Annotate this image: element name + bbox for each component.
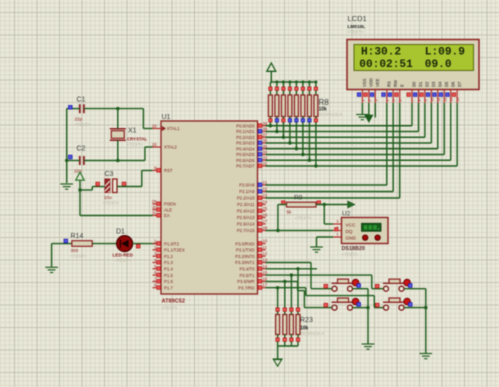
- wire P2 to LCD RS: [266, 103, 387, 185]
- node D1 right state square: [136, 244, 140, 248]
- U1 pin 34 (P0.5/AD5): [236, 150, 268, 158]
- crystal X1: [110, 128, 148, 148]
- ground for LCD VSS: [356, 114, 369, 116]
- wire P0.1 to LCD D1: [266, 103, 419, 132]
- push button B2: [383, 279, 412, 291]
- LCD pin 4 (RS): [382, 81, 392, 103]
- U1 pin 29 (PSEN): [152, 199, 176, 207]
- U1 pin 33 (P0.6/AD6): [236, 155, 268, 163]
- wire P2 to LCD E: [266, 103, 400, 198]
- svg-text:<TEXT>: <TEXT>: [127, 142, 143, 147]
- svg-text:CRYSTAL: CRYSTAL: [127, 137, 148, 142]
- U1 pin 22 (P2.1/A9): [239, 187, 268, 195]
- resistor pack R8 element 7: [307, 81, 311, 161]
- svg-text:D5: D5: [444, 81, 449, 87]
- svg-text:P1.3: P1.3: [164, 260, 173, 265]
- wire DQ net P2.7 to U2 DQ: [266, 230, 334, 232]
- svg-text:RS: RS: [386, 81, 391, 87]
- svg-text:<TEXT>: <TEXT>: [162, 306, 178, 311]
- svg-text:XTAL2: XTAL2: [164, 145, 177, 150]
- svg-text:7: 7: [411, 100, 415, 102]
- U1 pin 25 (P2.4/A12): [237, 206, 268, 214]
- ground for C1/C2: [60, 184, 73, 189]
- svg-text:P0.0/AD0: P0.0/AD0: [236, 123, 255, 128]
- wire LCD VEE down: [374, 103, 376, 118]
- svg-text:P3.3/INT1: P3.3/INT1: [235, 260, 255, 265]
- node B3 feed state square: [324, 303, 328, 307]
- svg-text:VCC: VCC: [346, 222, 357, 227]
- node VCC branch junction: [78, 188, 81, 191]
- U1 pin 7 (P1.6): [153, 276, 174, 284]
- svg-text:ALE: ALE: [164, 207, 172, 212]
- svg-text:5: 5: [392, 100, 396, 102]
- U1 pin 30 (ALE): [152, 205, 172, 213]
- node R9 left state square: [281, 201, 285, 205]
- U1 pin 32 (P0.7/AD7): [236, 161, 268, 169]
- svg-text:EA: EA: [164, 213, 170, 218]
- svg-text:P2.3/A11: P2.3/A11: [237, 202, 255, 207]
- resistor pack R8 element 3: [281, 81, 285, 138]
- svg-text:35: 35: [263, 144, 268, 149]
- svg-text:PSEN: PSEN: [164, 202, 176, 207]
- svg-text:X1: X1: [128, 128, 137, 135]
- wire B1/B3 to ground: [353, 289, 368, 344]
- U1 pin 6 (P1.5): [153, 270, 174, 278]
- svg-text:14: 14: [456, 98, 460, 102]
- U2 pin 3 (VCC): [333, 219, 342, 224]
- svg-text:P2.2/A10: P2.2/A10: [237, 196, 255, 201]
- svg-text:12: 12: [443, 98, 447, 102]
- LCD pin 8 (D1): [413, 81, 423, 103]
- wire P0.2 to LCD D2: [266, 103, 425, 137]
- svg-text:34: 34: [263, 150, 268, 155]
- U1 pin 15 (P3.5/T1): [239, 270, 267, 278]
- svg-text:30: 30: [152, 205, 157, 210]
- U1 pin 16 (P3.6/WR): [237, 276, 268, 284]
- U1 pin 24 (P2.3/A11): [237, 200, 268, 208]
- svg-text:26: 26: [263, 213, 268, 218]
- LED D1 LED-RED: [113, 228, 134, 263]
- label R8: [319, 98, 343, 117]
- U1 pin 35 (P0.4/AD4): [236, 144, 268, 152]
- svg-text:13: 13: [450, 98, 454, 102]
- microcontroller U1 AT89C52: [161, 114, 258, 311]
- svg-text:P3.7/RD: P3.7/RD: [238, 285, 254, 290]
- U1 pin 1 (P1.0/T2): [153, 239, 180, 247]
- node VCC junction at R9: [323, 203, 326, 206]
- LCD pin 1 (VSS): [357, 78, 367, 103]
- node B1 feed state square: [324, 284, 328, 288]
- svg-text:4: 4: [386, 100, 390, 102]
- wire C2 left to ground rail: [67, 160, 80, 162]
- node R23 junction 1: [276, 286, 279, 289]
- U1 pin 37 (P0.2/AD2): [236, 132, 268, 140]
- svg-text:P2.0/A8: P2.0/A8: [239, 183, 255, 188]
- resistor pack R8 element 5: [294, 81, 298, 149]
- LCD pin 2 (VDD): [364, 78, 374, 103]
- svg-text:09.0: 09.0: [425, 59, 452, 71]
- U1 pin 31 (EA): [152, 211, 170, 219]
- node B2-B4 junction: [424, 306, 427, 309]
- U1 pin 14 (P3.4/T0): [239, 264, 267, 272]
- resistor pack R23 element 4: [296, 269, 300, 346]
- node RP8 junction P0.7: [314, 164, 317, 167]
- svg-text:D1: D1: [116, 228, 125, 235]
- svg-text:P1.7: P1.7: [164, 285, 173, 290]
- svg-text:P1.4: P1.4: [164, 267, 173, 272]
- svg-text:.: .: [276, 368, 277, 373]
- svg-text:H:30.2: H:30.2: [361, 46, 401, 58]
- capacitor C2: [74, 146, 86, 174]
- LCD pin 13 (D6): [446, 81, 456, 103]
- svg-text:P3.2/INT0: P3.2/INT0: [235, 254, 255, 259]
- LCD text line 2: [359, 59, 452, 71]
- node RP8 junction P0.1: [275, 130, 278, 133]
- node RP8 junction P0.3: [288, 141, 291, 144]
- svg-text:<TEXT>: <TEXT>: [75, 122, 91, 127]
- wire VCC to C3 left: [80, 187, 105, 191]
- svg-text:22: 22: [263, 187, 268, 192]
- node C3 left state square: [96, 182, 100, 186]
- svg-text:P1.6: P1.6: [164, 279, 173, 284]
- resistor R14 300: [71, 233, 93, 259]
- U2 pin 2 (DQ): [333, 225, 342, 231]
- svg-text:P3.1/TXD: P3.1/TXD: [236, 248, 255, 253]
- svg-text:P0.1/AD1: P0.1/AD1: [236, 129, 255, 134]
- resistor pack R8 element 2: [275, 81, 279, 132]
- LCD pin 11 (D4): [433, 81, 443, 103]
- svg-text:LED-RED: LED-RED: [113, 253, 134, 258]
- svg-text:28: 28: [263, 226, 268, 231]
- LCD pin 14 (D7): [452, 81, 462, 103]
- node R23 junction 4: [296, 267, 299, 270]
- svg-text:P1.0/T2: P1.0/T2: [164, 241, 180, 246]
- svg-text:<TEXT>: <TEXT>: [295, 216, 311, 221]
- LCD text line 1: [361, 46, 465, 58]
- wire crystal bottom stub: [117, 140, 119, 160]
- svg-text:RESPACK-8: RESPACK-8: [319, 112, 343, 117]
- capacitor C1: [75, 97, 91, 128]
- U1 pin 27 (P2.6/A14): [237, 219, 268, 227]
- resistor pack R23 element 2: [283, 281, 287, 346]
- svg-text:12: 12: [263, 251, 268, 256]
- wire P3.3 to button B1: [266, 263, 332, 289]
- svg-text:RESPACK-4: RESPACK-4: [301, 331, 325, 336]
- U1 pin 9 (RST): [153, 166, 173, 174]
- node B1-B3 junction: [366, 306, 369, 309]
- power arrow VCC near C3: [76, 172, 85, 190]
- U1 pin 5 (P1.4): [153, 264, 174, 272]
- svg-text:U1: U1: [162, 114, 171, 121]
- node R23 junction 2: [283, 280, 286, 283]
- wire R9 right to VCC arrow: [316, 204, 348, 206]
- wire C1 right to XTAL1: [84, 109, 153, 129]
- svg-text:DQ: DQ: [346, 229, 353, 234]
- svg-text:22p: 22p: [75, 117, 83, 122]
- U1 pin 28 (P2.7/A15): [237, 226, 268, 234]
- svg-text:P1.2: P1.2: [164, 254, 173, 259]
- svg-text:23: 23: [263, 193, 268, 198]
- wire P3.6 to button B3: [266, 281, 332, 307]
- node R14 left state square: [64, 239, 68, 243]
- svg-text:P0.3/AD3: P0.3/AD3: [236, 141, 255, 146]
- resistor pack R8 element 4: [288, 81, 292, 144]
- wire P0.6 to LCD D6: [266, 103, 451, 160]
- U1 pin 4 (P1.3): [153, 258, 174, 266]
- svg-text:RW: RW: [393, 80, 398, 87]
- wire P0.7 to LCD D7: [266, 103, 458, 166]
- svg-text:300: 300: [71, 248, 79, 253]
- ground for B2/B4: [420, 353, 433, 355]
- LCD pin 5 (RW): [388, 80, 398, 103]
- node B4 feed state square: [375, 303, 379, 307]
- svg-text:P2.5/A13: P2.5/A13: [237, 215, 255, 220]
- node RP8 junction P0.5: [301, 153, 304, 156]
- svg-text:31: 31: [152, 211, 157, 216]
- wire crystal top stub: [117, 109, 119, 129]
- svg-text:VEE: VEE: [375, 78, 380, 87]
- svg-text:21: 21: [263, 180, 268, 185]
- U1 pin 19 (XTAL1): [152, 124, 180, 132]
- svg-text:32: 32: [263, 161, 268, 166]
- wire VCC down to U2 VCC: [324, 205, 333, 225]
- svg-text:24: 24: [263, 200, 268, 205]
- U1 pin 3 (P1.2): [153, 251, 174, 259]
- node R9 right state square: [317, 201, 321, 205]
- U1 pin 8 (P1.7): [153, 283, 174, 291]
- node B2 feed state square: [375, 284, 379, 288]
- svg-text:11: 11: [263, 245, 268, 250]
- node C1 left state square: [68, 105, 72, 109]
- svg-text:P2.1/A9: P2.1/A9: [239, 189, 255, 194]
- temperature sensor U2 DS18B20: [342, 211, 389, 258]
- wire ground to R14: [52, 243, 72, 245]
- node C3 right state square: [122, 182, 126, 186]
- power arrow down at LCD VDD: [365, 115, 373, 122]
- node C2 left state square: [68, 155, 72, 159]
- svg-text:9: 9: [424, 100, 428, 102]
- LCD pin 12 (D5): [439, 81, 449, 103]
- LCD pin 9 (D2): [420, 81, 430, 103]
- node crystal top junction: [116, 107, 119, 110]
- svg-text:<TEXT>: <TEXT>: [115, 258, 131, 263]
- power arrow VCC above RP8: [267, 63, 276, 82]
- svg-text:19: 19: [152, 124, 157, 129]
- wire U2 GND to ground: [317, 237, 334, 247]
- svg-text:C3: C3: [105, 171, 114, 178]
- wire C2 right to XTAL2: [84, 147, 153, 161]
- svg-text:P3.5/T1: P3.5/T1: [239, 273, 255, 278]
- svg-text:29: 29: [152, 199, 157, 204]
- U1 pin 12 (P3.2/INT0): [235, 251, 268, 259]
- U1 pin 10 (P3.0/RXD): [235, 239, 267, 247]
- svg-text:D2: D2: [425, 81, 430, 87]
- U1 pin 21 (P2.0/A8): [239, 180, 268, 188]
- svg-text:10u: 10u: [104, 195, 112, 200]
- svg-text:33: 33: [263, 155, 268, 160]
- label R23: [300, 317, 325, 336]
- svg-text:R9: R9: [294, 195, 303, 202]
- LCD pin 7 (D0): [407, 81, 417, 103]
- wire P0.5 to LCD D5: [266, 103, 445, 155]
- svg-text:P0.6/AD6: P0.6/AD6: [236, 158, 255, 163]
- svg-text:R14: R14: [71, 233, 84, 240]
- svg-text:D3: D3: [431, 81, 436, 87]
- svg-text:P2.4/A12: P2.4/A12: [237, 209, 255, 214]
- wire C3 right to RST: [117, 171, 153, 187]
- svg-text:GND: GND: [346, 235, 357, 240]
- wire LCD VDD to power: [368, 103, 370, 115]
- wire P0.0 to LCD D0: [266, 103, 413, 126]
- push button B3: [332, 298, 361, 310]
- svg-text:P0.7/AD7: P0.7/AD7: [236, 164, 255, 169]
- svg-text:11: 11: [437, 98, 441, 102]
- wire P0.4 to LCD D4: [266, 103, 438, 149]
- wire B2/B4 to ground: [404, 289, 426, 353]
- U1 pin 13 (P3.3/INT1): [235, 258, 268, 266]
- wire P0.3 to LCD D3: [266, 103, 432, 143]
- svg-text:1: 1: [361, 100, 365, 102]
- svg-text:P3.0/RXD: P3.0/RXD: [235, 241, 254, 246]
- svg-text:39: 39: [263, 121, 268, 126]
- svg-text:XTAL1: XTAL1: [167, 126, 180, 131]
- svg-text:U2: U2: [342, 211, 351, 218]
- resistor pack R8 element 1: [268, 82, 272, 126]
- wire P3.4 stub: [266, 268, 318, 270]
- U1 pin 39 (P0.0/AD0): [236, 121, 268, 129]
- LCD LCD1 LM016L: [347, 14, 479, 90]
- svg-text:AT89C52: AT89C52: [162, 299, 186, 305]
- svg-text:VSS: VSS: [362, 78, 367, 87]
- node RP8 junction P0.4: [295, 147, 298, 150]
- wire C1 left to ground rail: [67, 109, 80, 183]
- svg-text:P0.2/AD2: P0.2/AD2: [236, 135, 255, 140]
- svg-text:D6: D6: [450, 81, 455, 87]
- U1 pin 11 (P3.1/TXD): [236, 245, 268, 253]
- svg-text:D4: D4: [437, 81, 442, 87]
- resistor pack R23 element 1: [276, 288, 280, 346]
- svg-text:P3.4/T0: P3.4/T0: [239, 267, 255, 272]
- U1 pin 26 (P2.5/A13): [237, 213, 268, 221]
- arrow ground below R23: [273, 359, 283, 373]
- svg-text:<TEXT>: <TEXT>: [71, 254, 87, 259]
- svg-text:VDD: VDD: [368, 78, 373, 87]
- resistor pack R8 element 6: [301, 81, 305, 155]
- node R23 junction 3: [290, 273, 293, 276]
- svg-text:36: 36: [263, 138, 268, 143]
- wire D1 to P1.1: [133, 243, 161, 245]
- push button B1: [332, 279, 361, 291]
- svg-text:P2.7/A15: P2.7/A15: [237, 228, 255, 233]
- node RP8 junction P0.0: [269, 124, 272, 127]
- svg-text:<TEXT>: <TEXT>: [103, 201, 119, 206]
- node RP8 junction P0.6: [308, 159, 311, 162]
- wire R9 left down to DQ net: [278, 205, 287, 231]
- svg-text:D7: D7: [457, 81, 462, 87]
- svg-text:E: E: [399, 84, 404, 87]
- svg-text:18: 18: [152, 142, 157, 147]
- svg-text:6: 6: [399, 100, 403, 102]
- svg-text:14: 14: [263, 264, 268, 269]
- svg-text:P0.4/AD4: P0.4/AD4: [236, 146, 255, 151]
- node C1-C2 rail junction: [65, 159, 68, 162]
- svg-text:<TEXT>: <TEXT>: [342, 252, 359, 257]
- node crystal bottom junction: [116, 159, 119, 162]
- svg-text:10: 10: [263, 239, 268, 244]
- svg-text:LCD1: LCD1: [348, 14, 367, 23]
- svg-text:25: 25: [263, 206, 268, 211]
- svg-text:2: 2: [368, 100, 372, 102]
- svg-text:13: 13: [263, 258, 268, 263]
- wire R23 rail to ground: [277, 346, 279, 359]
- U1 pin 23 (P2.2/A10): [237, 193, 268, 201]
- U1 pin 38 (P0.1/AD1): [236, 127, 268, 135]
- wire P2 to LCD RW: [266, 103, 394, 192]
- wire RP8 top rail: [270, 81, 316, 83]
- U1 pin 17 (P3.7/RD): [238, 283, 268, 291]
- svg-text:RST: RST: [164, 168, 173, 173]
- node DQ junction: [276, 229, 279, 232]
- svg-text:8: 8: [417, 100, 421, 102]
- svg-text:38: 38: [263, 127, 268, 132]
- svg-text:3: 3: [374, 100, 378, 102]
- svg-text:27: 27: [263, 219, 268, 224]
- svg-text:C2: C2: [77, 146, 86, 153]
- svg-text:P3.6/WR: P3.6/WR: [237, 279, 254, 284]
- svg-text:C1: C1: [77, 97, 86, 104]
- wire VCC to EA pin 31: [80, 190, 153, 216]
- svg-text:P1.1/T2EX: P1.1/T2EX: [164, 248, 185, 253]
- resistor pack R8 element 8: [314, 81, 318, 167]
- ground for U2: [310, 246, 323, 248]
- svg-text:<TEXT>: <TEXT>: [348, 30, 365, 35]
- svg-text:P0.5/AD5: P0.5/AD5: [236, 152, 255, 157]
- wire P3.5 to button B2: [266, 275, 384, 289]
- power arrow VCC right of R9: [348, 201, 355, 208]
- svg-text:D0: D0: [412, 81, 417, 87]
- svg-text:37: 37: [263, 132, 268, 137]
- U1 pin 18 (XTAL2): [152, 142, 178, 150]
- ground for R14: [45, 244, 58, 273]
- XTAL1 clock input arrow: [162, 126, 166, 131]
- U1 pin 2 (P1.1/T2EX): [153, 245, 185, 253]
- svg-text:15: 15: [263, 270, 268, 275]
- LCD pin 3 (VEE): [370, 78, 380, 103]
- svg-text:P1.5: P1.5: [164, 273, 173, 278]
- wire LCD VSS to ground: [361, 103, 363, 114]
- svg-text:16: 16: [263, 276, 268, 281]
- capacitor C3 10u: [102, 171, 119, 206]
- LCD pin 10 (D3): [426, 81, 436, 103]
- svg-text:D1: D1: [418, 81, 423, 87]
- resistor R9 5k: [287, 195, 317, 221]
- svg-text:R23: R23: [300, 317, 313, 324]
- node RP8 junction P0.2: [282, 136, 285, 139]
- ground for B1/B3: [362, 343, 375, 345]
- svg-text:00:02:51: 00:02:51: [359, 59, 413, 71]
- resistor pack R23 element 3: [289, 275, 293, 346]
- wire R14 to D1: [92, 243, 117, 245]
- wire P3.7 to button B4: [266, 288, 384, 308]
- svg-text:10: 10: [430, 98, 434, 102]
- push button B4: [383, 298, 412, 310]
- U2 pin 1 (GND): [333, 232, 342, 237]
- svg-text:L:09.9: L:09.9: [425, 46, 465, 58]
- svg-text:P2.6/A14: P2.6/A14: [237, 222, 255, 227]
- wire R23 bottom rail: [278, 345, 298, 347]
- LCD pin 6 (E): [395, 84, 405, 103]
- U1 pin 36 (P0.3/AD3): [236, 138, 268, 146]
